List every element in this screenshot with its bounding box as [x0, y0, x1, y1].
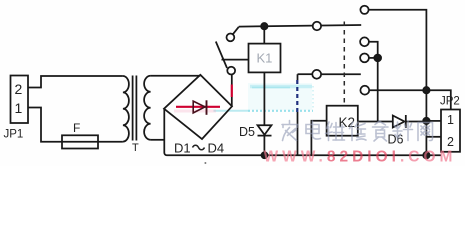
- svg-text:1: 1: [15, 100, 23, 116]
- svg-text:D5: D5: [239, 125, 255, 139]
- svg-text:JP1: JP1: [4, 129, 24, 141]
- svg-text:2: 2: [447, 135, 454, 149]
- svg-text:K1: K1: [257, 51, 273, 66]
- svg-text:F: F: [73, 121, 80, 135]
- svg-text:WWW.82DIOI.COM: WWW.82DIOI.COM: [264, 149, 457, 166]
- svg-text:2: 2: [15, 81, 23, 97]
- svg-text:1: 1: [447, 113, 454, 127]
- svg-text:T: T: [132, 142, 139, 154]
- svg-text:D1: D1: [174, 141, 191, 156]
- svg-text:JP2: JP2: [440, 96, 460, 108]
- svg-text:D4: D4: [208, 141, 225, 156]
